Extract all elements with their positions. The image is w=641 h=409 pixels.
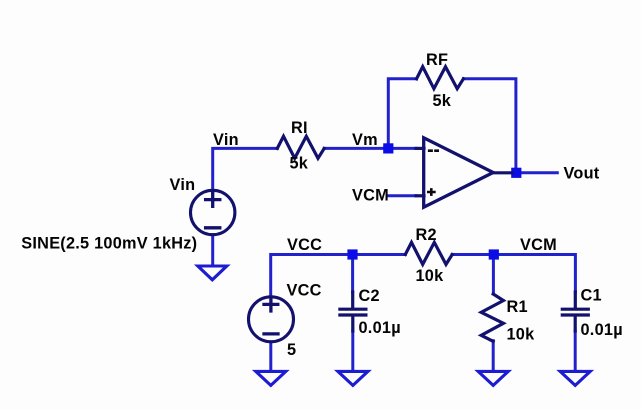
svg-text:5k: 5k: [433, 92, 452, 110]
svg-text:10k: 10k: [416, 267, 445, 285]
svg-text:R2: R2: [416, 226, 437, 244]
svg-text:Vout: Vout: [564, 165, 600, 183]
svg-text:5k: 5k: [290, 155, 309, 173]
svg-text:R1: R1: [507, 298, 528, 316]
svg-text:RF: RF: [426, 51, 448, 69]
svg-text:VCC: VCC: [287, 236, 322, 254]
svg-text:Vm: Vm: [352, 131, 378, 149]
svg-text:C2: C2: [359, 287, 380, 305]
svg-text:C1: C1: [581, 287, 602, 305]
svg-text:0.01µ: 0.01µ: [359, 319, 401, 337]
svg-text:5: 5: [287, 341, 296, 359]
svg-text:VCC: VCC: [287, 282, 322, 300]
svg-text:RI: RI: [291, 119, 308, 137]
svg-text:Vin: Vin: [170, 176, 196, 194]
svg-text:0.01µ: 0.01µ: [581, 321, 623, 339]
svg-text:VCM: VCM: [520, 236, 557, 254]
svg-text:VCM: VCM: [352, 187, 389, 205]
svg-text:Vin: Vin: [213, 131, 239, 149]
svg-text:SINE(2.5 100mV 1kHz): SINE(2.5 100mV 1kHz): [21, 234, 197, 252]
svg-text:10k: 10k: [507, 326, 536, 344]
